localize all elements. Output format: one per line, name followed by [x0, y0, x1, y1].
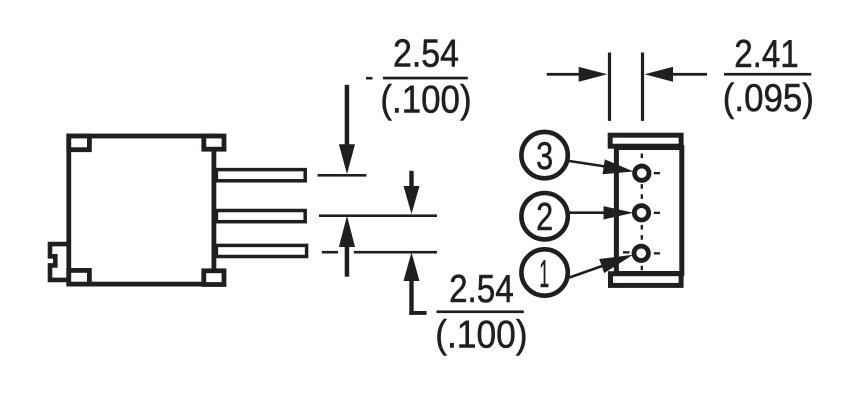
2.41 dimension extension line left — [608, 53, 611, 121]
bottom cap — [611, 274, 682, 286]
right arrow — [644, 67, 673, 82]
trimmer body side view — [69, 136, 214, 284]
svg-text:(.100): (.100) — [435, 314, 527, 357]
pin 2 — [634, 206, 648, 220]
balloon 1 leader — [570, 263, 613, 278]
label 2.54/(.100) top — [366, 77, 373, 80]
pin 3 — [635, 166, 649, 180]
up arrow to line C with leader foot — [404, 252, 420, 281]
svg-text:2.54: 2.54 — [449, 268, 514, 311]
up arrow to line B — [339, 216, 355, 247]
mounting standoff notch — [50, 244, 67, 280]
svg-text:(.095): (.095) — [723, 77, 814, 120]
top cap — [610, 135, 681, 146]
dimension line B (lead2 level) — [319, 214, 437, 217]
corner square bottom-right — [204, 271, 224, 285]
svg-text:2.54: 2.54 — [393, 33, 459, 76]
dimension line A (lead1 level) — [318, 174, 367, 177]
balloon 3 — [521, 132, 567, 178]
balloon 2 — [521, 193, 567, 239]
balloon 1 — [521, 249, 567, 295]
svg-text:3: 3 — [536, 135, 553, 178]
lead 2 — [216, 211, 305, 222]
dimension line C (lead3 level) — [322, 251, 338, 254]
corner square top-right — [204, 136, 224, 149]
pin 1 — [634, 246, 648, 260]
left arrow — [547, 73, 583, 76]
svg-text:2.41: 2.41 — [734, 33, 799, 76]
balloon 2 leader — [568, 211, 612, 214]
corner square bottom-left — [69, 270, 90, 284]
body — [616, 148, 681, 274]
lead 1 — [216, 170, 305, 181]
balloon 3 leader — [566, 161, 612, 168]
svg-text:(.100): (.100) — [380, 79, 471, 122]
dashed centerline — [641, 154, 643, 271]
lead 3 — [216, 245, 306, 256]
corner square top-left — [69, 136, 90, 150]
down arrow to line B — [409, 171, 413, 188]
2.41 dimension extension line right — [641, 53, 644, 121]
svg-text:1: 1 — [539, 253, 549, 296]
svg-text:2: 2 — [536, 196, 553, 239]
down arrow to line A — [345, 85, 350, 145]
